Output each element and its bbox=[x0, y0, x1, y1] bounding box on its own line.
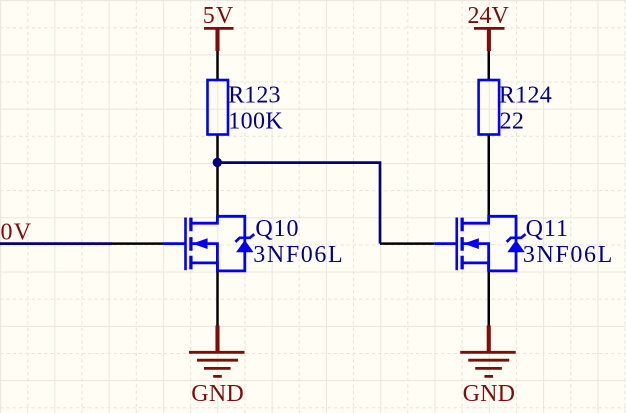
svg-text:3NF06L: 3NF06L bbox=[523, 242, 614, 268]
svg-text:3NF06L: 3NF06L bbox=[253, 242, 344, 268]
svg-text:Q10: Q10 bbox=[255, 216, 299, 242]
svg-text:Q11: Q11 bbox=[526, 216, 569, 242]
svg-text:22: 22 bbox=[500, 109, 525, 135]
svg-text:R124: R124 bbox=[499, 82, 552, 108]
svg-text:GND: GND bbox=[463, 381, 516, 407]
svg-text:5V: 5V bbox=[203, 3, 235, 29]
svg-text:100K: 100K bbox=[228, 109, 283, 135]
svg-text:0V: 0V bbox=[1, 219, 33, 245]
svg-text:R123: R123 bbox=[228, 82, 280, 108]
svg-text:GND: GND bbox=[191, 381, 244, 407]
svg-text:24V: 24V bbox=[468, 3, 510, 29]
